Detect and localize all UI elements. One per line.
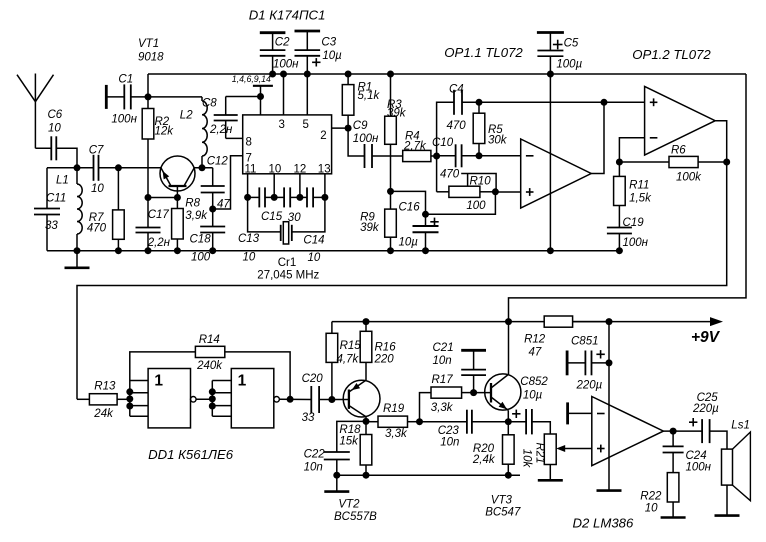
svg-text:OP1.1 TL072: OP1.1 TL072 [444,45,523,60]
node C12/C18/pin7 [209,206,216,213]
resistor R5 [473,102,508,156]
svg-text:C7: C7 [89,145,104,157]
svg-text:100н: 100н [623,237,649,249]
svg-text:10: 10 [91,183,104,195]
wire pin 11 [244,174,251,201]
svg-text:9018: 9018 [138,52,164,64]
capacitor C18 [190,209,226,264]
power rail top [148,73,746,75]
svg-text:100k: 100k [676,172,702,184]
wire C5 power drop [547,71,554,255]
resistor R19 [366,403,420,440]
svg-text:10: 10 [243,252,256,264]
svg-text:24k: 24k [93,408,114,420]
svg-text:C11: C11 [46,193,66,205]
svg-text:R19: R19 [383,403,405,415]
svg-text:R21: R21 [534,442,546,463]
svg-text:470: 470 [440,169,460,181]
svg-text:C1: C1 [118,74,133,86]
svg-text:10n: 10n [440,437,459,449]
svg-text:C8: C8 [202,98,217,110]
inductor L2 [180,97,207,168]
capacitor C3 [295,31,343,74]
bottom rail emitter section [337,472,520,479]
svg-text:11: 11 [245,163,257,175]
gate DD1.1 input bar [126,381,148,417]
node R10 right / OP1.1 plus [426,188,521,214]
svg-text:R22: R22 [640,491,662,503]
svg-text:R12: R12 [524,334,546,346]
svg-text:R6: R6 [671,145,686,157]
resistor R6 [619,145,726,184]
op-amp OP1.2 [632,47,715,155]
node R5/C10 to OP1.1 minus [476,152,521,159]
svg-text:3: 3 [279,119,285,131]
resistor R2 [142,97,174,198]
antenna W1 [17,74,54,149]
svg-text:3,3k: 3,3k [431,402,454,414]
svg-text:C24: C24 [686,450,707,462]
capacitor C4 [437,84,479,157]
wire pin 3 to rail [280,71,287,115]
svg-text:5: 5 [303,119,309,131]
svg-text:C12: C12 [207,156,229,168]
svg-text:100н: 100н [111,113,137,125]
capacitor C11 [34,168,66,251]
resistor R17 [431,374,474,414]
svg-text:13: 13 [318,163,331,175]
svg-text:33: 33 [45,220,58,232]
resistor R22 [640,473,685,518]
svg-text:R10: R10 [470,176,492,188]
svg-text:Cr1: Cr1 [278,257,297,269]
wire tank to C7 [77,167,94,169]
wire pin 12 [296,174,303,201]
svg-text:27,045 MHz: 27,045 MHz [257,270,319,282]
wire VT3 collector up [508,322,510,375]
wire OP1.2 output feedback [77,121,730,400]
capacitor C2 [260,33,299,74]
svg-text:C5: C5 [564,38,579,50]
svg-text:R15: R15 [340,340,362,352]
wire OP1.1 output [591,102,604,173]
wire gate1 out to gate2 in [196,398,212,400]
svg-text:Ls1: Ls1 [731,419,750,431]
resistor R9 [360,191,396,250]
capacitor C20 [302,373,332,424]
capacitor C851 [567,336,609,392]
wire C6 to tank node [56,148,80,171]
resistor R1 [342,71,380,129]
svg-text:VT3: VT3 [491,495,513,507]
svg-text:10µ: 10µ [399,237,419,249]
capacitor C17 [136,198,171,251]
capacitor C25 [689,392,727,449]
power drop to D2 ground [597,322,622,491]
svg-text:10: 10 [269,163,282,175]
svg-text:4,7k: 4,7k [337,354,360,366]
capacitor C5 [537,33,583,75]
wire C8 top to supply pins bar [226,93,264,100]
svg-text:C23: C23 [438,425,460,437]
svg-text:30: 30 [288,212,301,224]
svg-text:470: 470 [447,120,467,132]
svg-text:L2: L2 [180,110,193,122]
svg-text:R17: R17 [432,374,454,386]
wire rail right drop to 9V line [509,74,747,322]
node C3/pin5 rail [304,71,311,78]
svg-text:C15: C15 [261,211,283,223]
svg-text:220µ: 220µ [692,403,719,415]
svg-text:15k: 15k [339,436,359,448]
wire OP1.2 minus link [616,138,645,166]
svg-text:5,1k: 5,1k [358,90,381,102]
svg-text:8: 8 [246,137,252,149]
node R19/R17/C23 [416,393,431,426]
resistor R4 [391,131,437,162]
node VT3 emitter [505,418,512,425]
svg-text:L1: L1 [56,175,69,187]
svg-text:2,4k: 2,4k [472,454,496,466]
svg-text:47: 47 [529,347,542,359]
wire pin 10 [271,174,278,201]
svg-text:R18: R18 [339,424,361,436]
svg-text:3,9k: 3,9k [185,210,208,222]
node D2 output [663,428,702,435]
svg-text:BC557B: BC557B [334,511,377,523]
svg-text:C4: C4 [449,84,464,96]
svg-text:100н: 100н [273,59,299,71]
svg-text:C22: C22 [304,449,326,461]
svg-text:C19: C19 [623,217,645,229]
wire node to pin 7 [213,156,243,209]
node C2 rail [269,71,276,78]
svg-text:C852: C852 [520,376,548,388]
capacitor C23 [420,410,509,449]
svg-text:R16: R16 [375,342,397,354]
gate DD1.2 input bar [209,381,232,417]
svg-text:C9: C9 [353,120,368,132]
resistor R3 [385,71,407,192]
wire antenna to C6 [35,147,51,149]
svg-text:3,3k: 3,3k [385,428,408,440]
svg-text:1: 1 [238,372,247,389]
svg-text:BC547: BC547 [485,507,521,519]
ground C22 [324,472,349,492]
IC D1 box [243,8,332,176]
capacitor C19 [607,217,649,251]
svg-text:10µ: 10µ [523,390,543,402]
svg-text:10µ: 10µ [322,50,342,62]
svg-text:220: 220 [374,354,395,366]
capacitor C22 [304,421,366,475]
node gate2 output [279,396,311,403]
resistor R20 [472,422,514,476]
svg-text:R14: R14 [199,334,220,346]
supply pins 1,4,6,9,14 bar [232,74,273,115]
svg-text:R8: R8 [185,198,200,210]
svg-text:C17: C17 [148,209,170,221]
ground main [65,251,90,268]
wire pin 5 to rail [306,74,308,115]
svg-text:33: 33 [302,412,315,424]
node C1/R2/L2 [145,93,152,100]
svg-text:10: 10 [308,252,321,264]
svg-text:C18: C18 [190,234,212,246]
svg-text:D2 LM386: D2 LM386 [573,516,635,531]
svg-text:C13: C13 [238,233,260,245]
gate DD1.2 [148,369,279,463]
svg-text:C21: C21 [433,342,454,354]
svg-text:2,7k: 2,7k [403,141,427,153]
wire rail drop to C1 node [147,74,149,97]
transistor VT3 [485,374,521,519]
resistor R8 [172,198,209,251]
svg-text:C3: C3 [321,37,336,49]
node VT2 collector [363,418,370,425]
svg-text:1,5k: 1,5k [629,193,652,205]
svg-text:10: 10 [645,503,658,515]
wire pin 13 [321,174,328,201]
capacitor C15 [261,187,301,223]
svg-text:2,2н: 2,2н [209,124,233,136]
capacitor C852 [508,376,550,434]
svg-text:100µ: 100µ [556,59,582,71]
svg-text:C16: C16 [399,202,421,214]
node VT3 base [470,389,491,396]
power line 9V [332,317,723,346]
capacitor C21 [433,342,487,393]
node R15/base VT2 [328,396,349,403]
svg-text:VT2: VT2 [338,499,360,511]
svg-text:2,2н: 2,2н [147,237,171,249]
svg-text:1: 1 [154,372,163,389]
svg-text:100н: 100н [686,462,712,474]
svg-text:DD1 К561ЛЕ6: DD1 К561ЛЕ6 [148,447,234,462]
svg-text:R13: R13 [94,381,116,393]
amplifier D2 [573,397,664,531]
capacitor C6 [48,109,63,160]
svg-text:12k: 12k [155,126,175,138]
resistor R16 [360,322,396,381]
svg-text:100н: 100н [353,133,379,145]
svg-text:+9V: +9V [691,329,721,346]
svg-text:39k: 39k [360,222,380,234]
capacitor C24 [663,431,712,473]
svg-text:C10: C10 [432,137,454,149]
wire C1 node to L2 top [148,96,202,98]
svg-text:100: 100 [191,252,211,264]
svg-text:VT1: VT1 [138,38,159,50]
wire VT1 base node [145,194,181,201]
bottom rail top section [47,247,619,254]
transistor VT1 [138,38,195,198]
gate DD1.1 [148,369,196,428]
wire pin 8 [226,137,243,139]
resistor R10 [437,156,497,212]
svg-text:12: 12 [294,163,307,175]
svg-text:C2: C2 [275,37,290,49]
potentiometer R21 [521,434,592,480]
svg-text:10: 10 [48,123,61,135]
wire C4 node to OP1.2 plus [476,99,645,106]
capacitor C12 [201,156,231,211]
svg-text:10n: 10n [433,355,452,367]
capacitor C14 [300,187,325,264]
node R3/R9/C16 link [387,188,429,218]
resistor R18 [339,421,371,475]
node R4/C10/C4 [433,153,440,160]
svg-text:10k: 10k [521,449,533,469]
capacitor C8 [202,97,238,139]
svg-text:D1 К174ПС1: D1 К174ПС1 [249,8,326,23]
svg-text:220µ: 220µ [576,380,603,392]
crystal Cr1 [248,197,325,281]
svg-text:R11: R11 [629,180,649,192]
wire L1 top link [47,167,77,169]
svg-text:1,4,6,9,14: 1,4,6,9,14 [232,74,271,84]
svg-text:C851: C851 [571,336,599,348]
svg-text:C20: C20 [302,373,324,385]
resistor R12 [524,316,609,359]
op-amp OP1.1 [444,45,591,208]
svg-text:39k: 39k [387,108,407,120]
svg-text:100: 100 [466,200,486,212]
inductor L1 [56,168,82,251]
resistor R14 feedback [130,334,290,399]
svg-text:C14: C14 [303,235,324,247]
resistor R11 [614,162,652,228]
transistor VT2 [334,380,380,523]
resistor R13 [77,381,130,421]
capacitor C9 [348,120,390,168]
resistor R15 [326,322,361,400]
capacitor C16 [399,202,439,251]
capacitor C10 [432,137,479,181]
svg-text:10n: 10n [304,462,323,474]
capacitor C7 [89,145,105,196]
svg-text:30k: 30k [488,135,508,147]
resistor R7 [87,168,124,251]
svg-text:470: 470 [87,223,107,235]
capacitor C1 [106,74,148,126]
svg-text:240k: 240k [196,360,223,372]
node C19 rail end [616,247,623,254]
wire pin 2 to R1/C9 node [332,125,352,132]
speaker Ls1 [715,419,751,515]
wire C7 to VT1 emitter node [99,164,161,171]
wire VT1 collector to L2/C12 node [194,164,212,171]
svg-text:2: 2 [320,130,326,142]
capacitor C13 [238,187,274,263]
amplifier D2 minus terminal [568,402,592,424]
svg-text:C6: C6 [48,109,63,121]
svg-text:OP1.2 TL072: OP1.2 TL072 [632,47,711,62]
